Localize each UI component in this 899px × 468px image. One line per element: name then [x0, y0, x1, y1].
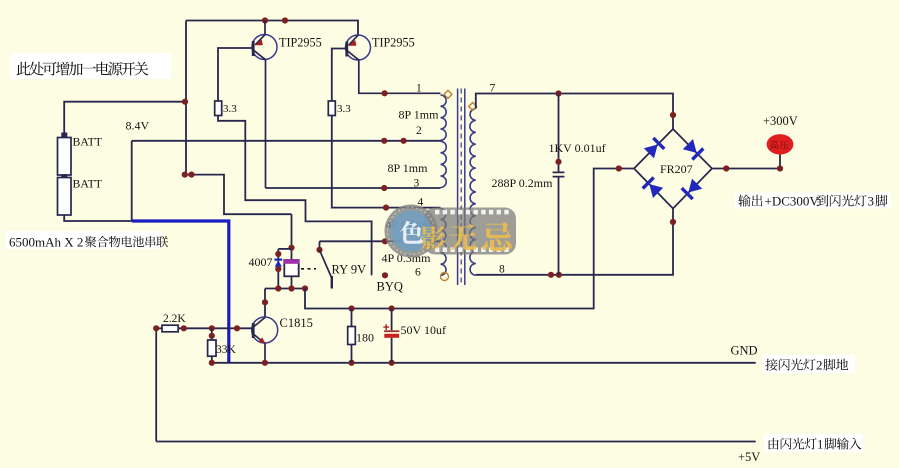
watermark (xitek logo): [424, 208, 516, 255]
svg-text:3: 3: [414, 178, 420, 190]
transformer pin connection dots: [381, 90, 407, 278]
transformer pin marker diamond (pin 7): [469, 103, 477, 111]
svg-text:FR207: FR207: [660, 162, 693, 176]
wire relay feed drop: [291, 214, 293, 260]
wire Q2 base to resistor: [332, 49, 347, 102]
note: add a power switch here: [17, 62, 149, 76]
wire Q2 collector to pin 1: [348, 51, 441, 93]
capacitor 50V 10uf top plate: [384, 330, 399, 332]
wire pin2 center tap vertical: [131, 141, 133, 221]
transistor Q2 TIP2955 body circle: [346, 35, 371, 60]
transistor Q3 emitter arrow (NPN): [259, 337, 266, 344]
diode 4007 pin dots: [275, 251, 281, 272]
battery BATT (top cell) body: [58, 138, 72, 176]
junction 33K top dot: [209, 333, 215, 339]
svg-text:4007: 4007: [249, 255, 273, 269]
wire 2.2K to Q3 base: [178, 327, 252, 329]
wire +5V rail: [156, 441, 756, 443]
wire transformer pin 3 from Q1 collector: [266, 187, 441, 189]
label background: GND note: [762, 355, 855, 373]
junction dots pin 8 wire: [548, 219, 676, 278]
svg-text:1: 1: [416, 83, 422, 95]
wire diode 4007 vertical: [277, 249, 279, 289]
junction C1815 collector dot: [262, 299, 268, 305]
wire relay bottom to C1815 collector: [264, 289, 266, 318]
transistor Q2 emitter arrow (PNP): [348, 40, 356, 46]
junction cap 0.01uf dot: [555, 159, 561, 165]
capacitor 50V 10uf bottom plate: [384, 334, 399, 338]
resistor 3.3 (right) body: [328, 101, 335, 116]
wire 180 top: [351, 309, 353, 327]
wire relay feed from 8.4V branch: [186, 175, 292, 215]
high-voltage indicator circle: [767, 134, 794, 154]
wire pin 5 drop to switch pivot: [319, 241, 321, 250]
wire switched rail to bridge left: [305, 169, 634, 309]
wire diode branch top: [278, 248, 291, 250]
bridge diode lower-left: [649, 184, 663, 198]
wire transformer pin 8 to bridge bottom: [476, 209, 673, 275]
label background: battery note: [6, 231, 162, 249]
wire Q1 base to resistor: [218, 48, 253, 101]
resistor 2.2K body: [162, 325, 178, 332]
svg-text:C1815: C1815: [280, 316, 313, 330]
wire 2.2K left stub: [156, 327, 162, 329]
label gao-ya inside circle: [770, 140, 789, 149]
wire relay bottom bus: [265, 288, 305, 290]
relay switch arm: [320, 250, 332, 278]
note: input from flash pin 1: [769, 438, 862, 452]
junction dots relay bottom bus: [275, 285, 308, 291]
label background: +300V output note: [735, 193, 891, 209]
svg-text:180: 180: [356, 331, 374, 345]
svg-text:1: 1: [817, 438, 823, 452]
transformer secondary winding 288P 0.2mm: [470, 109, 476, 276]
svg-text:33K: 33K: [216, 344, 237, 356]
battery inter-cell connector: [61, 174, 67, 178]
resistor 3.3 (left) body: [215, 101, 222, 116]
wire battery negative (blue): [132, 221, 229, 362]
transformer pin marker circle (pin 6): [441, 273, 449, 281]
transistor Q2 base bar: [345, 42, 348, 57]
note: output +DC300V to flash pin 3: [738, 194, 887, 209]
svg-text:GND: GND: [731, 344, 758, 358]
relay linkage dashes: [301, 268, 316, 270]
capacitor 1KV 0.01uf plates: [553, 172, 565, 176]
wire cap 10uf bottom: [391, 338, 393, 363]
transformer core: [458, 89, 465, 286]
junction dots pin 7 wire: [555, 90, 676, 118]
junction pair battery plus branch: [182, 172, 195, 178]
wire GND rail: [211, 362, 756, 364]
wire top emitter rail: [186, 21, 358, 36]
transformer primary winding 8P 1mm (pins 2-3): [441, 141, 447, 187]
relay RY coil top bar (purple): [283, 259, 299, 264]
svg-text:3: 3: [868, 194, 875, 209]
wire Q1 emitter from rail: [255, 21, 265, 45]
transistor Q1 base bar: [252, 41, 255, 56]
bridge diode upper-left: [644, 145, 658, 159]
transformer feedback winding 4P 0.6mm (pins 4-5): [441, 209, 446, 241]
junction dots output wire: [723, 165, 783, 171]
junction pair on top emitter rail: [262, 17, 288, 23]
svg-text:8.4V: 8.4V: [126, 119, 150, 133]
svg-text:2.2K: 2.2K: [163, 313, 186, 325]
capacitor 50V 10uf plus sign: [383, 324, 389, 330]
transformer primary winding 8P 1mm (pins 1-2): [441, 95, 447, 140]
transistor Q3 C1815 body circle: [252, 317, 278, 343]
junction dots on GND rail: [209, 360, 395, 366]
bridge FR207 diamond frame: [634, 129, 712, 209]
note: 6500mAh x2 polymer battery in series: [9, 234, 168, 249]
svg-text:8: 8: [499, 264, 505, 276]
wire 3.3 left resistor to feedback stair: [218, 116, 372, 276]
label background: +5V input note: [764, 434, 863, 452]
resistor 180 body: [348, 327, 356, 345]
wire Q2 emitter from rail: [349, 35, 358, 45]
bridge diode upper-right: [683, 139, 697, 153]
junction dots on switched rail: [348, 165, 622, 311]
svg-text:TIP2955: TIP2955: [279, 36, 322, 50]
svg-text:3.3: 3.3: [337, 103, 351, 115]
svg-text:8P 1mm: 8P 1mm: [399, 108, 440, 122]
transformer feedback winding 4P 0.3mm (pins 5-6): [441, 242, 447, 275]
note: to flash pin 2 ground: [765, 358, 848, 373]
wire cap 0.01uf bottom: [558, 177, 560, 275]
wire 8.4V rail from battery plus: [64, 102, 185, 133]
svg-text:BATT: BATT: [73, 135, 103, 149]
battery BATT (bottom cell) body: [58, 178, 72, 216]
svg-text:2: 2: [416, 125, 422, 137]
svg-text:+5V: +5V: [738, 450, 760, 464]
svg-text:8P 1mm: 8P 1mm: [388, 161, 429, 175]
transistor Q3 base bar: [252, 323, 255, 338]
wire +5V input vertical: [155, 328, 157, 441]
transistor Q1 emitter arrow (PNP): [255, 40, 263, 46]
svg-text:BATT: BATT: [73, 177, 103, 191]
wire cap 10uf top: [391, 309, 393, 331]
wire relay coil bottom: [291, 276, 293, 288]
svg-text:2: 2: [816, 358, 823, 373]
wire bridge right to output: [712, 155, 780, 169]
svg-text:RY 9V: RY 9V: [332, 263, 367, 277]
junction switch pivot: [316, 247, 322, 253]
battery BATT (top cell) terminal cap: [61, 133, 67, 139]
wire 3.3 right resistor to pin 4: [332, 116, 441, 208]
junction dots on base wire: [153, 325, 240, 331]
svg-text:3.3: 3.3: [223, 103, 237, 115]
junction relay/diode top: [288, 245, 294, 251]
svg-text:+300V: +300V: [763, 114, 798, 128]
wire 180 bottom: [351, 345, 353, 363]
diode 4007 cathode bar: [274, 259, 282, 261]
svg-text:+DC300V: +DC300V: [765, 194, 820, 209]
wire cap 0.01uf top: [558, 94, 560, 172]
wire Q3 collector diagonal: [254, 318, 265, 327]
resistor 33K body: [208, 340, 216, 356]
wire transformer pin 2: [132, 140, 441, 142]
diode 4007 triangle: [275, 260, 282, 266]
svg-text:50V 10uf: 50V 10uf: [401, 323, 446, 337]
relay switch contact bar: [331, 276, 333, 289]
bridge diode lower-right: [688, 179, 702, 193]
label background: power-switch note: [10, 53, 171, 79]
svg-text:6: 6: [415, 267, 421, 279]
svg-text:288P 0.2mm: 288P 0.2mm: [492, 176, 554, 190]
wire left vertical from top rail: [185, 21, 187, 175]
svg-text:1KV 0.01uf: 1KV 0.01uf: [549, 141, 606, 155]
transistor Q1 TIP2955 body circle: [252, 35, 277, 60]
svg-text:BYQ: BYQ: [377, 280, 403, 294]
wire transformer pin 5 to relay switch: [320, 240, 441, 242]
wire 33K bottom: [211, 356, 213, 363]
transformer pin marker diamond (pin 1): [444, 90, 452, 98]
relay RY coil box: [284, 260, 298, 276]
wire Q1 collector: [254, 51, 266, 189]
wire 33K top: [211, 328, 213, 340]
junction 8.4V rail to left vertical: [182, 99, 188, 105]
wire transformer pin 7 to bridge top: [476, 94, 673, 130]
wire battery bottom to pin2 junction: [64, 215, 132, 221]
svg-text:6500mAh X 2: 6500mAh X 2: [9, 234, 83, 249]
wire Q3 emitter diagonal: [254, 335, 265, 363]
svg-text:TIP2955: TIP2955: [372, 36, 415, 50]
